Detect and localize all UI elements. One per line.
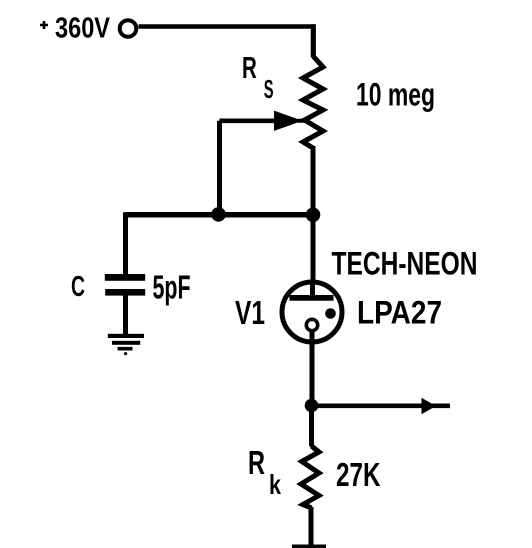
svg-text:TECH-NEON: TECH-NEON	[332, 246, 478, 282]
tube anode electrode bar	[290, 295, 334, 301]
output wire	[312, 403, 451, 408]
svg-text:C: C	[71, 271, 85, 303]
tube anode lead	[310, 282, 315, 296]
wire tube to node	[310, 331, 315, 406]
svg-text:10 meg: 10 meg	[356, 77, 435, 113]
wire capacitor drop	[123, 212, 128, 274]
node wiper junction	[211, 207, 226, 222]
svg-text:360V: 360V	[55, 13, 111, 45]
output arrowhead	[422, 398, 437, 414]
neon tube V1 envelope	[282, 282, 342, 342]
node output junction	[305, 399, 319, 413]
wiper arrow wire	[220, 119, 291, 124]
svg-text:V1: V1	[235, 294, 265, 331]
svg-text:5pF: 5pF	[153, 269, 191, 306]
resistor Rk label	[248, 444, 281, 500]
tube gas dot	[325, 308, 336, 319]
svg-text:S: S	[264, 76, 274, 104]
svg-text:k: k	[269, 469, 281, 500]
svg-text:R: R	[248, 444, 265, 481]
wire top horizontal	[139, 24, 314, 29]
wire node to Rk	[309, 405, 314, 447]
svg-text:27K: 27K	[336, 456, 381, 493]
wire capacitor to ground	[123, 295, 128, 335]
label +360V	[40, 13, 111, 45]
wire wiper vertical	[217, 121, 222, 215]
wire Rk to ground	[309, 507, 314, 545]
tube cathode circle	[306, 319, 317, 330]
capacitor C	[105, 274, 145, 296]
svg-text:LPA27: LPA27	[357, 295, 442, 331]
ground (capacitor)	[108, 334, 144, 355]
node grid junction	[306, 208, 321, 223]
resistor Rs label	[242, 51, 274, 104]
wiper arrowhead	[276, 114, 306, 129]
wire middle horizontal	[126, 212, 314, 218]
resistor Rk	[301, 446, 319, 508]
wire top vertical	[311, 24, 316, 57]
svg-text:R: R	[242, 51, 257, 85]
ground (bottom)	[292, 545, 326, 548]
terminal +360V	[120, 20, 137, 37]
wire resistor to tube	[311, 146, 316, 281]
resistor Rs (potentiometer)	[303, 56, 323, 148]
